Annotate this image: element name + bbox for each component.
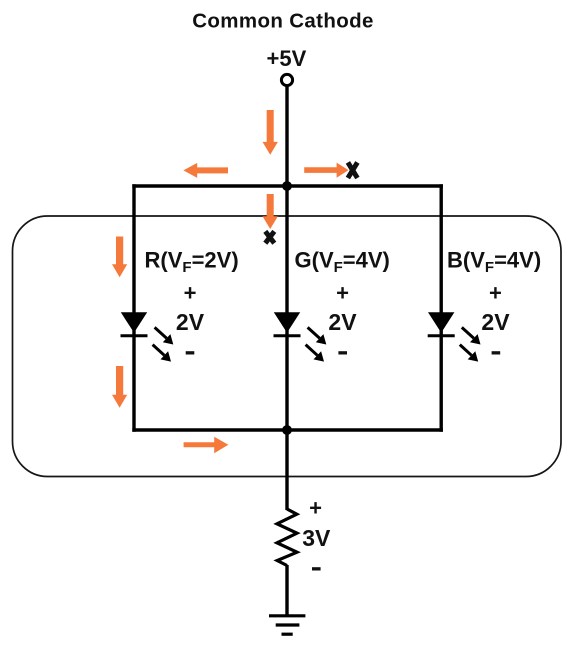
ground symbol [269,616,305,634]
D2 value 2V [328,309,357,335]
+5V terminal circle [281,74,292,85]
wire top horizontal bus [132,184,443,187]
svg-text:G(VF=4V): G(VF=4V) [295,247,390,276]
RGB LED package outline [13,216,562,477]
svg-text:2V: 2V [328,309,357,335]
svg-text:R(VF=2V): R(VF=2V) [145,247,239,276]
wire bottom horizontal bus [132,428,443,431]
blocked path x mark middle [265,231,274,243]
resistor R1 zigzag [277,509,297,566]
current arrow down below node A (blocked) [263,194,278,229]
node A junction dot [282,181,292,191]
current arrow down left branch lower [112,366,127,408]
blocked path x mark right [348,162,358,178]
wire right branch (B) [440,184,443,431]
D1 plus label [184,281,197,306]
resistor value 3V [302,525,331,551]
svg-text:3V: 3V [302,525,331,551]
svg-text:2V: 2V [176,309,205,335]
current arrow right along top bus (blocked) [304,163,348,178]
wire node B to resistor [285,430,288,510]
current arrow down left branch upper [112,237,127,278]
D3 plus label [489,281,502,306]
LED D1 (red) symbol [121,312,174,361]
label G(VF=4V) [295,247,390,276]
D1 minus label [186,351,195,354]
current arrow down into node A [263,110,278,155]
D3 value 2V [481,309,510,335]
wire supply to node A [285,86,288,186]
svg-text:B(VF=4V): B(VF=4V) [447,247,541,276]
current arrow right along bottom bus [184,437,229,454]
wire resistor to ground [285,565,288,616]
LED D3 (blue) symbol [428,312,481,361]
wire left branch (R) [132,184,135,431]
label B(VF=4V) [447,247,541,276]
svg-text:2V: 2V [481,309,510,335]
current arrow left along top bus [183,163,228,178]
title Common Cathode [192,10,373,33]
resistor minus label [312,567,321,570]
+5V supply label [267,46,307,71]
label R(VF=2V) [145,247,239,276]
D2 plus label [336,281,349,306]
svg-text:+: + [184,281,197,306]
D2 minus label [338,351,347,354]
node B junction dot [282,425,292,435]
svg-text:Common Cathode: Common Cathode [192,10,373,33]
svg-text:+: + [489,281,502,306]
resistor plus label [309,496,322,521]
LED D2 (green) symbol [274,312,327,361]
D3 minus label [492,351,501,354]
svg-text:+: + [336,281,349,306]
svg-text:+5V: +5V [267,46,307,71]
svg-text:+: + [309,496,322,521]
wire middle branch (G) [285,186,288,430]
D1 value 2V [176,309,205,335]
